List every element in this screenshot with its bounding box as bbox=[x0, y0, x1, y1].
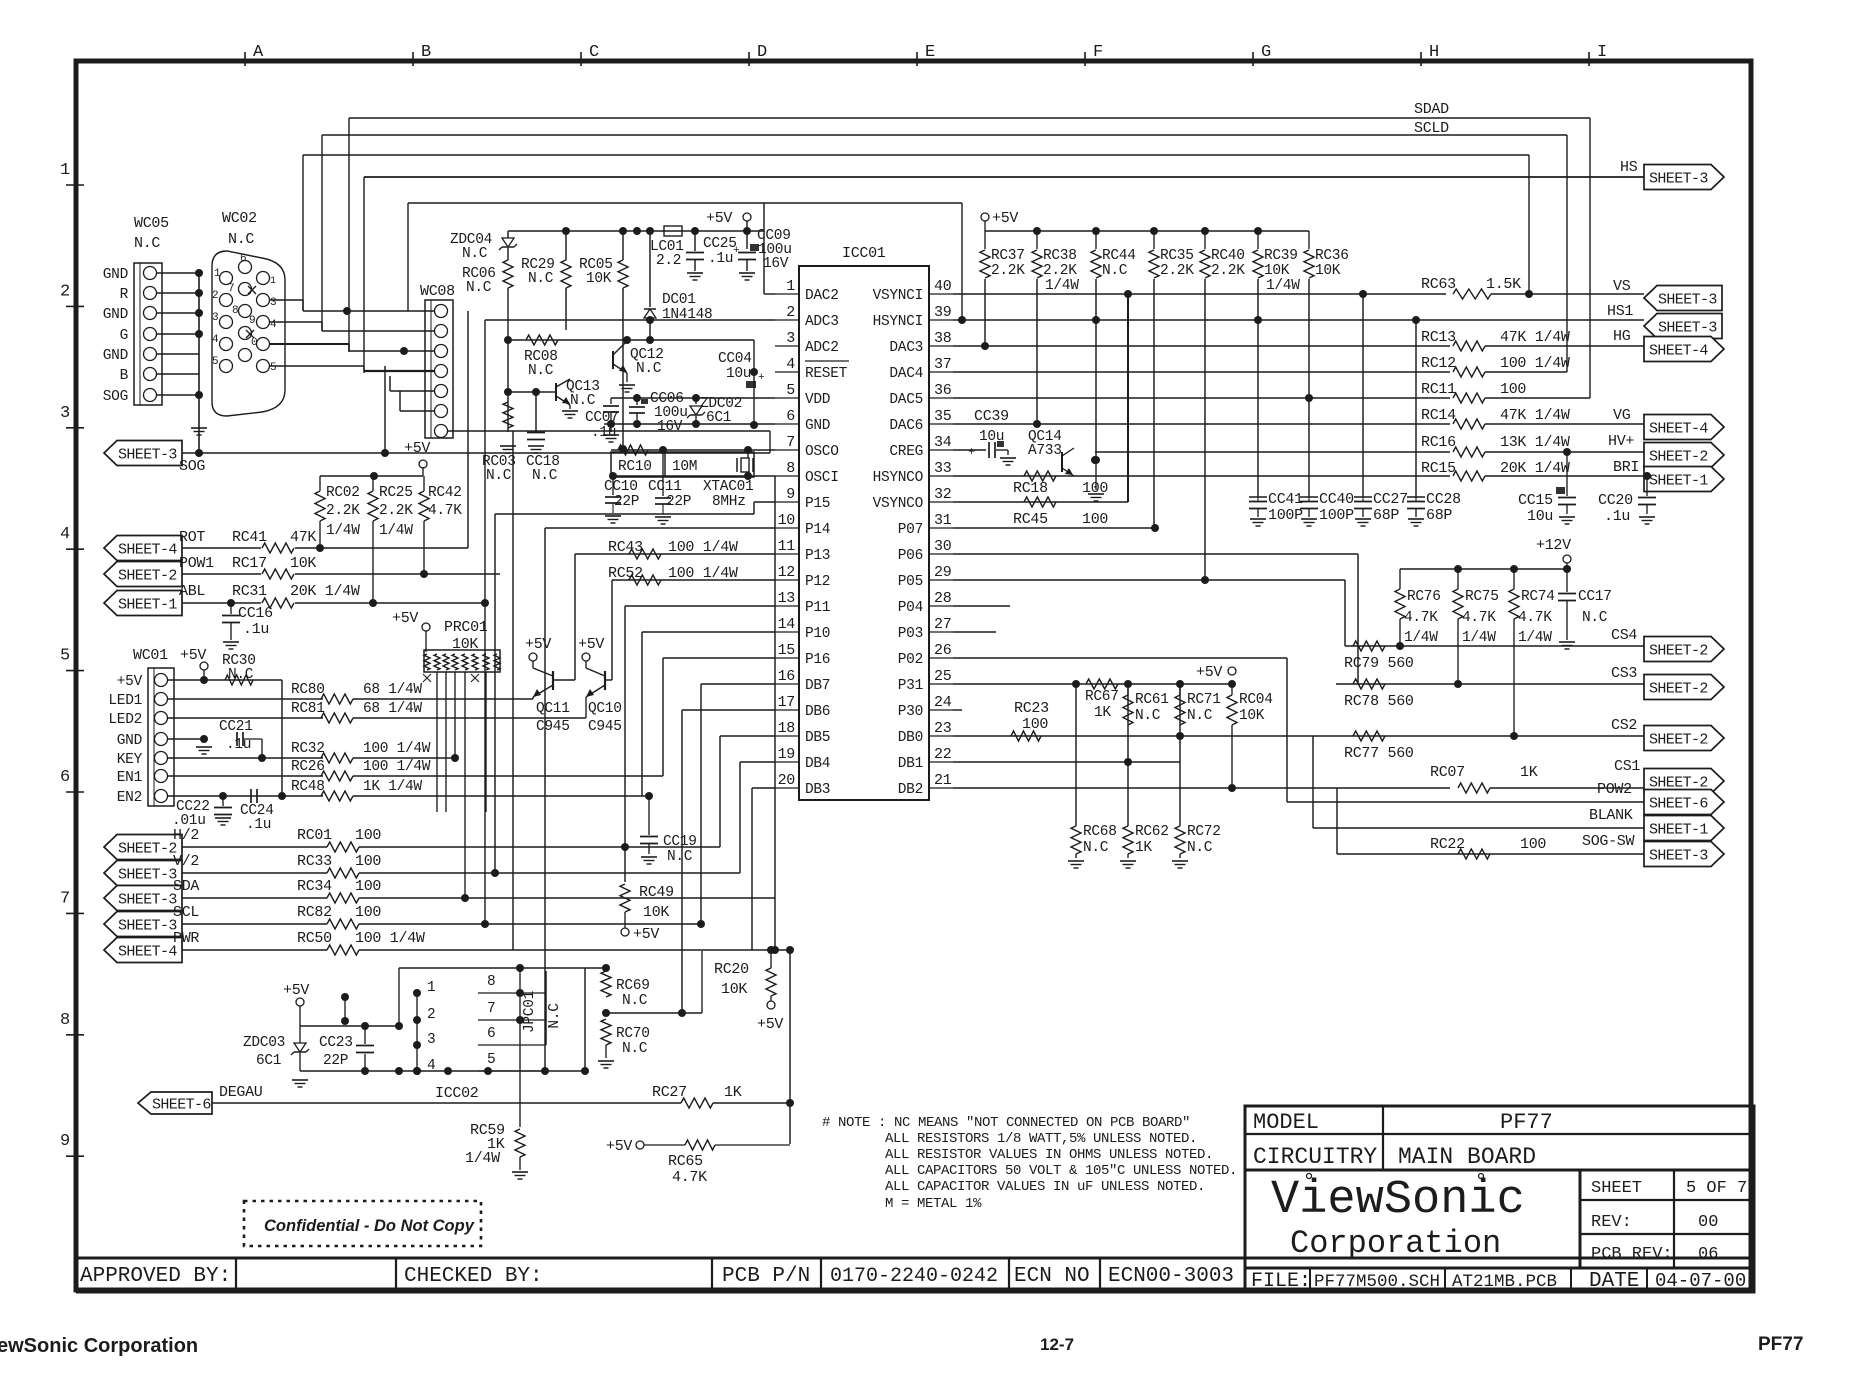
svg-text:4.7K: 4.7K bbox=[1518, 610, 1552, 626]
svg-text:MAIN BOARD: MAIN BOARD bbox=[1398, 1144, 1536, 1170]
svg-text:SHEET-3: SHEET-3 bbox=[118, 918, 177, 935]
svg-text:RC69: RC69 bbox=[616, 978, 650, 994]
svg-text:R: R bbox=[120, 287, 129, 303]
svg-text:16V: 16V bbox=[657, 419, 683, 435]
svg-text:G: G bbox=[1261, 43, 1271, 62]
svg-text:4: 4 bbox=[212, 334, 219, 346]
svg-text:N.C: N.C bbox=[547, 1003, 563, 1029]
svg-text:SHEET-3: SHEET-3 bbox=[1658, 292, 1717, 309]
svg-text:HSYNCI: HSYNCI bbox=[873, 314, 923, 330]
svg-text:38: 38 bbox=[934, 330, 952, 347]
svg-text:RC25: RC25 bbox=[379, 485, 413, 501]
svg-text:SHEET-1: SHEET-1 bbox=[118, 597, 177, 614]
svg-text:RC11: RC11 bbox=[1421, 381, 1456, 398]
svg-text:+5V: +5V bbox=[117, 674, 143, 690]
svg-text:5: 5 bbox=[60, 647, 70, 666]
svg-text:H/2: H/2 bbox=[173, 827, 199, 844]
svg-text:10u: 10u bbox=[1527, 508, 1553, 525]
svg-text:10M: 10M bbox=[672, 459, 697, 475]
svg-text:H: H bbox=[1429, 43, 1439, 62]
svg-text:RC48: RC48 bbox=[291, 779, 325, 795]
svg-text:1: 1 bbox=[786, 278, 795, 295]
svg-text:20K 1/4W: 20K 1/4W bbox=[1500, 460, 1570, 477]
svg-text:RC41: RC41 bbox=[232, 529, 267, 546]
svg-text:AT21MB.PCB: AT21MB.PCB bbox=[1452, 1272, 1557, 1292]
svg-text:RC67: RC67 bbox=[1085, 689, 1119, 705]
svg-text:P04: P04 bbox=[898, 600, 923, 616]
svg-text:GND: GND bbox=[103, 348, 128, 364]
svg-text:100: 100 bbox=[1082, 480, 1108, 497]
svg-text:11: 11 bbox=[778, 538, 796, 555]
svg-text:06: 06 bbox=[1698, 1245, 1718, 1264]
svg-text:3: 3 bbox=[427, 1032, 435, 1048]
svg-text:N.C: N.C bbox=[636, 361, 662, 377]
svg-text:31: 31 bbox=[934, 512, 952, 529]
svg-text:N.C: N.C bbox=[1083, 840, 1109, 856]
svg-text:CC19: CC19 bbox=[663, 834, 697, 850]
svg-text:13: 13 bbox=[778, 590, 796, 607]
svg-text:CS1: CS1 bbox=[1614, 758, 1640, 775]
svg-text:SOG: SOG bbox=[103, 389, 128, 405]
svg-text:HS: HS bbox=[1620, 159, 1638, 176]
svg-text:+5V: +5V bbox=[706, 210, 732, 227]
svg-text:RC13: RC13 bbox=[1421, 329, 1456, 346]
svg-text:22: 22 bbox=[934, 746, 951, 763]
svg-text:DAC6: DAC6 bbox=[889, 418, 923, 434]
svg-text:PRC01: PRC01 bbox=[444, 619, 488, 636]
svg-text:RC27: RC27 bbox=[652, 1084, 687, 1101]
svg-text:3: 3 bbox=[270, 297, 276, 309]
svg-text:ZDC03: ZDC03 bbox=[243, 1035, 285, 1051]
svg-text:SHEET-3: SHEET-3 bbox=[1649, 171, 1708, 188]
svg-text:B: B bbox=[120, 368, 129, 384]
svg-text:RC72: RC72 bbox=[1187, 824, 1221, 840]
svg-text:8MHz: 8MHz bbox=[712, 494, 746, 510]
svg-text:100: 100 bbox=[1082, 511, 1108, 528]
svg-text:CS2: CS2 bbox=[1611, 717, 1637, 734]
svg-text:40: 40 bbox=[934, 278, 952, 295]
svg-text:KEY: KEY bbox=[117, 752, 143, 768]
svg-text:V/2: V/2 bbox=[173, 853, 199, 870]
svg-text:+: + bbox=[758, 372, 764, 384]
svg-text:5: 5 bbox=[212, 356, 218, 368]
svg-text:+5V: +5V bbox=[404, 440, 430, 457]
svg-text:APPROVED BY:: APPROVED BY: bbox=[80, 1265, 231, 1288]
svg-text:1K: 1K bbox=[1094, 705, 1111, 721]
svg-text:Corporation: Corporation bbox=[1290, 1225, 1501, 1262]
svg-text:6: 6 bbox=[240, 253, 246, 265]
svg-text:HS1: HS1 bbox=[1607, 303, 1633, 320]
svg-text:1K: 1K bbox=[1135, 840, 1152, 856]
svg-text:DAC2: DAC2 bbox=[805, 288, 839, 304]
svg-text:C945: C945 bbox=[536, 719, 570, 735]
svg-text:SHEET-2: SHEET-2 bbox=[1649, 643, 1708, 660]
svg-text:GND: GND bbox=[117, 733, 142, 749]
svg-text:CC15: CC15 bbox=[1518, 492, 1553, 509]
svg-text:N.C: N.C bbox=[228, 231, 254, 248]
svg-text:ALL CAPACITORS 50 VOLT & 105"C: ALL CAPACITORS 50 VOLT & 105"C UNLESS NO… bbox=[885, 1163, 1237, 1179]
svg-text:E: E bbox=[925, 43, 935, 62]
svg-text:10K: 10K bbox=[721, 981, 747, 998]
svg-text:CC17: CC17 bbox=[1578, 589, 1612, 605]
svg-text:CC20: CC20 bbox=[1598, 492, 1633, 509]
svg-text:P05: P05 bbox=[898, 574, 923, 590]
svg-text:P15: P15 bbox=[805, 496, 830, 512]
svg-text:RC70: RC70 bbox=[616, 1026, 650, 1042]
svg-text:RC35: RC35 bbox=[1160, 248, 1194, 264]
svg-text:2: 2 bbox=[786, 304, 795, 321]
svg-text:RC74: RC74 bbox=[1521, 589, 1555, 605]
svg-text:28: 28 bbox=[934, 590, 952, 607]
svg-text:6: 6 bbox=[786, 408, 795, 425]
svg-text:+5V: +5V bbox=[392, 610, 418, 627]
svg-text:LED2: LED2 bbox=[108, 712, 142, 728]
svg-text:N.C: N.C bbox=[1102, 263, 1128, 279]
svg-text:2: 2 bbox=[427, 1007, 435, 1023]
svg-text:DAC4: DAC4 bbox=[889, 366, 923, 382]
svg-text:N.C: N.C bbox=[667, 849, 693, 865]
svg-text:1/4W: 1/4W bbox=[1462, 630, 1496, 646]
svg-text:2.2K: 2.2K bbox=[1043, 263, 1077, 279]
svg-text:+5V: +5V bbox=[606, 1138, 632, 1155]
svg-text:7: 7 bbox=[487, 1001, 495, 1017]
svg-text:5: 5 bbox=[270, 362, 276, 374]
svg-text:SHEET-4: SHEET-4 bbox=[118, 542, 177, 559]
svg-text:10K: 10K bbox=[1239, 708, 1265, 724]
svg-text:PCB REV:: PCB REV: bbox=[1591, 1245, 1673, 1264]
svg-text:30: 30 bbox=[934, 538, 952, 555]
svg-text:PWR: PWR bbox=[173, 930, 199, 947]
svg-text:SHEET-4: SHEET-4 bbox=[1649, 343, 1708, 360]
svg-text:POW2: POW2 bbox=[1597, 781, 1632, 798]
svg-text:RC44: RC44 bbox=[1102, 248, 1136, 264]
svg-text:100 1/4W: 100 1/4W bbox=[363, 741, 431, 757]
svg-text:C945: C945 bbox=[588, 719, 622, 735]
svg-text:04-07-00: 04-07-00 bbox=[1655, 1270, 1746, 1292]
svg-text:10K: 10K bbox=[586, 271, 612, 287]
svg-text:14: 14 bbox=[778, 616, 796, 633]
svg-text:3: 3 bbox=[60, 404, 70, 423]
svg-text:100 1/4W: 100 1/4W bbox=[355, 930, 425, 947]
svg-text:ADC2: ADC2 bbox=[805, 340, 839, 356]
svg-text:2.2K: 2.2K bbox=[379, 503, 413, 519]
svg-text:CC10: CC10 bbox=[604, 479, 638, 495]
svg-text:CC23: CC23 bbox=[319, 1035, 353, 1051]
svg-text:CC21: CC21 bbox=[219, 719, 253, 735]
svg-text:DATE: DATE bbox=[1589, 1270, 1639, 1293]
svg-text:2.2K: 2.2K bbox=[1160, 263, 1194, 279]
svg-text:CC16: CC16 bbox=[238, 605, 273, 622]
svg-text:VG: VG bbox=[1613, 407, 1631, 424]
svg-text:RC79 560: RC79 560 bbox=[1344, 655, 1414, 672]
svg-text:+12V: +12V bbox=[1536, 537, 1571, 554]
svg-text:5: 5 bbox=[487, 1052, 495, 1068]
svg-text:RC50: RC50 bbox=[297, 930, 332, 947]
svg-text:RC62: RC62 bbox=[1135, 824, 1169, 840]
svg-text:1: 1 bbox=[270, 276, 276, 287]
svg-text:N.C: N.C bbox=[622, 1041, 648, 1057]
svg-text:27: 27 bbox=[934, 616, 951, 633]
svg-text:RC76: RC76 bbox=[1407, 589, 1441, 605]
svg-text:RC10: RC10 bbox=[618, 459, 652, 475]
svg-text:SHEET-2: SHEET-2 bbox=[1649, 681, 1708, 698]
svg-text:SDA: SDA bbox=[173, 878, 199, 895]
svg-text:19: 19 bbox=[778, 746, 795, 763]
svg-text:SHEET-2: SHEET-2 bbox=[118, 841, 177, 858]
svg-text:I: I bbox=[1597, 43, 1607, 62]
svg-text:ADC3: ADC3 bbox=[805, 314, 839, 330]
svg-text:1/4W: 1/4W bbox=[326, 523, 360, 539]
svg-text:N.C: N.C bbox=[1582, 610, 1608, 626]
svg-text:RC12: RC12 bbox=[1421, 355, 1456, 372]
svg-text:RESET: RESET bbox=[805, 366, 848, 382]
svg-text:8: 8 bbox=[487, 974, 495, 990]
svg-text:+: + bbox=[733, 245, 739, 257]
svg-text:CC11: CC11 bbox=[648, 479, 682, 495]
svg-text:1/4W: 1/4W bbox=[1404, 630, 1438, 646]
svg-text:RC39: RC39 bbox=[1264, 248, 1298, 264]
svg-text:8: 8 bbox=[60, 1011, 70, 1030]
svg-text:FILE:: FILE: bbox=[1251, 1270, 1311, 1293]
svg-text:6C1: 6C1 bbox=[256, 1053, 281, 1069]
svg-text:N.C: N.C bbox=[622, 993, 648, 1009]
svg-text:SHEET-3: SHEET-3 bbox=[118, 447, 177, 464]
svg-text:N.C: N.C bbox=[134, 235, 160, 252]
svg-text:SHEET-6: SHEET-6 bbox=[152, 1097, 211, 1114]
svg-text:P02: P02 bbox=[898, 652, 923, 668]
svg-text:N.C: N.C bbox=[532, 468, 558, 484]
svg-text:VSYNCO: VSYNCO bbox=[873, 496, 923, 512]
svg-text:N.C: N.C bbox=[1187, 840, 1213, 856]
svg-text:68P: 68P bbox=[1426, 507, 1452, 524]
svg-text:+5V: +5V bbox=[578, 636, 604, 653]
svg-text:100P: 100P bbox=[1268, 507, 1303, 524]
svg-text:6C1: 6C1 bbox=[706, 410, 731, 426]
svg-text:N.C: N.C bbox=[466, 280, 492, 296]
svg-text:RC37: RC37 bbox=[991, 248, 1025, 264]
svg-text:3: 3 bbox=[786, 330, 795, 347]
svg-text:OSCO: OSCO bbox=[805, 444, 839, 460]
svg-text:1/4W: 1/4W bbox=[1045, 278, 1079, 294]
svg-text:HSYNCO: HSYNCO bbox=[873, 470, 923, 486]
svg-text:P10: P10 bbox=[805, 626, 830, 642]
svg-text:ICC01: ICC01 bbox=[842, 245, 886, 262]
svg-text:.1u: .1u bbox=[708, 251, 733, 267]
svg-text:SOG: SOG bbox=[179, 458, 205, 475]
svg-text:10u: 10u bbox=[979, 429, 1004, 445]
svg-text:ICC02: ICC02 bbox=[435, 1085, 479, 1102]
svg-text:100: 100 bbox=[355, 904, 381, 921]
svg-text:SHEET-3: SHEET-3 bbox=[118, 867, 177, 884]
svg-text:ViewSonic: ViewSonic bbox=[1271, 1174, 1525, 1227]
svg-text:RC38: RC38 bbox=[1043, 248, 1077, 264]
svg-text:RC15: RC15 bbox=[1421, 460, 1456, 477]
svg-text:1: 1 bbox=[214, 268, 221, 280]
svg-text:QC11: QC11 bbox=[536, 701, 570, 717]
svg-text:SHEET-2: SHEET-2 bbox=[1649, 732, 1708, 749]
svg-text:8: 8 bbox=[786, 460, 795, 477]
svg-text:68 1/4W: 68 1/4W bbox=[363, 701, 422, 717]
svg-text:CHECKED BY:: CHECKED BY: bbox=[404, 1265, 543, 1288]
svg-text:4: 4 bbox=[60, 525, 70, 544]
svg-text:A733: A733 bbox=[1028, 443, 1062, 459]
svg-text:POW1: POW1 bbox=[179, 555, 214, 572]
svg-text:10K: 10K bbox=[643, 904, 669, 921]
svg-text:PF77: PF77 bbox=[1500, 1110, 1553, 1135]
svg-text:DB6: DB6 bbox=[805, 704, 830, 720]
svg-text:WC08: WC08 bbox=[420, 283, 455, 300]
svg-text:10K: 10K bbox=[290, 555, 316, 572]
svg-text:CC39: CC39 bbox=[974, 408, 1009, 425]
svg-text:RC75: RC75 bbox=[1465, 589, 1499, 605]
svg-text:CC40: CC40 bbox=[1319, 491, 1354, 508]
svg-text:N.C: N.C bbox=[462, 246, 488, 262]
svg-text:GND: GND bbox=[103, 307, 128, 323]
svg-text:SHEET-1: SHEET-1 bbox=[1649, 822, 1708, 839]
svg-text:.1u: .1u bbox=[243, 621, 269, 638]
svg-text:SHEET-3: SHEET-3 bbox=[1649, 848, 1708, 865]
svg-text:RC26: RC26 bbox=[291, 759, 325, 775]
svg-text:RC36: RC36 bbox=[1315, 248, 1349, 264]
svg-text:VDD: VDD bbox=[805, 392, 830, 408]
svg-text:2.2K: 2.2K bbox=[991, 263, 1025, 279]
svg-text:DB2: DB2 bbox=[898, 782, 923, 798]
svg-text:DAC3: DAC3 bbox=[889, 340, 923, 356]
svg-text:ewSonic Corporation: ewSonic Corporation bbox=[0, 1335, 198, 1357]
svg-text:1K: 1K bbox=[1520, 764, 1538, 781]
svg-text:RC23: RC23 bbox=[1014, 700, 1049, 717]
svg-text:RC68: RC68 bbox=[1083, 824, 1117, 840]
svg-text:CC28: CC28 bbox=[1426, 491, 1461, 508]
svg-text:RC04: RC04 bbox=[1239, 692, 1273, 708]
svg-text:100 1/4W: 100 1/4W bbox=[363, 759, 431, 775]
svg-text:+5V: +5V bbox=[757, 1016, 783, 1033]
svg-text:SHEET-2: SHEET-2 bbox=[118, 568, 177, 585]
svg-text:RC20: RC20 bbox=[714, 961, 749, 978]
svg-text:RC07: RC07 bbox=[1430, 764, 1465, 781]
svg-text:CC25: CC25 bbox=[703, 236, 737, 252]
svg-text:Confidential - Do Not Copy: Confidential - Do Not Copy bbox=[264, 1217, 475, 1235]
svg-text:RC82: RC82 bbox=[297, 904, 332, 921]
svg-text:ABL: ABL bbox=[179, 583, 205, 600]
svg-text:4.7K: 4.7K bbox=[428, 503, 462, 519]
svg-text:RC40: RC40 bbox=[1211, 248, 1245, 264]
svg-text:P13: P13 bbox=[805, 548, 830, 564]
svg-text:32: 32 bbox=[934, 486, 951, 503]
svg-text:CREG: CREG bbox=[889, 444, 923, 460]
svg-text:1: 1 bbox=[60, 161, 70, 180]
svg-text:RC61: RC61 bbox=[1135, 692, 1169, 708]
svg-text:21: 21 bbox=[934, 772, 952, 789]
svg-text:+5V: +5V bbox=[283, 982, 309, 999]
svg-text:22P: 22P bbox=[323, 1053, 348, 1069]
svg-text:OSCI: OSCI bbox=[805, 470, 839, 486]
svg-text:SOG-SW: SOG-SW bbox=[1582, 833, 1635, 850]
svg-text:18: 18 bbox=[778, 720, 796, 737]
svg-text:EN2: EN2 bbox=[117, 790, 142, 806]
svg-text:JPC01: JPC01 bbox=[522, 991, 538, 1033]
svg-text:1/4W: 1/4W bbox=[1266, 278, 1300, 294]
svg-text:P06: P06 bbox=[898, 548, 923, 564]
svg-text:CC04: CC04 bbox=[718, 351, 752, 367]
svg-text:26: 26 bbox=[934, 642, 952, 659]
svg-text:P07: P07 bbox=[898, 522, 923, 538]
svg-text:25: 25 bbox=[934, 668, 952, 685]
svg-text:RC71: RC71 bbox=[1187, 692, 1221, 708]
svg-text:RC16: RC16 bbox=[1421, 434, 1456, 451]
svg-text:16: 16 bbox=[778, 668, 796, 685]
svg-text:GND: GND bbox=[805, 418, 830, 434]
svg-text:17: 17 bbox=[778, 694, 795, 711]
svg-text:HV+: HV+ bbox=[1608, 433, 1634, 450]
svg-text:DC01: DC01 bbox=[662, 292, 696, 308]
svg-text:23: 23 bbox=[934, 720, 952, 737]
svg-text:ROT: ROT bbox=[179, 529, 205, 546]
svg-text:6: 6 bbox=[60, 768, 70, 787]
svg-text:RC42: RC42 bbox=[428, 485, 462, 501]
svg-text:7: 7 bbox=[786, 434, 795, 451]
svg-text:RC33: RC33 bbox=[297, 853, 332, 870]
svg-text:PF77: PF77 bbox=[1758, 1334, 1803, 1355]
svg-text:SHEET-2: SHEET-2 bbox=[1649, 449, 1708, 466]
svg-text:N.C: N.C bbox=[1187, 708, 1213, 724]
svg-text:16V: 16V bbox=[763, 256, 789, 272]
svg-text:XTAC01: XTAC01 bbox=[703, 479, 753, 495]
svg-text:G: G bbox=[120, 328, 128, 344]
svg-text:100P: 100P bbox=[1319, 507, 1354, 524]
svg-text:37: 37 bbox=[934, 356, 951, 373]
svg-text:1/4W: 1/4W bbox=[379, 523, 413, 539]
svg-text:4: 4 bbox=[786, 356, 795, 373]
svg-text:P30: P30 bbox=[898, 704, 923, 720]
svg-text:ALL CAPACITOR VALUES IN uF UNL: ALL CAPACITOR VALUES IN uF UNLESS NOTED. bbox=[885, 1179, 1205, 1195]
svg-text:D: D bbox=[757, 43, 767, 62]
svg-text:+5V: +5V bbox=[180, 647, 206, 664]
svg-text:68P: 68P bbox=[1373, 507, 1399, 524]
svg-text:N.C: N.C bbox=[486, 468, 512, 484]
svg-text:BRI: BRI bbox=[1613, 459, 1639, 476]
svg-text:SHEET: SHEET bbox=[1591, 1179, 1642, 1198]
svg-text:P03: P03 bbox=[898, 626, 923, 642]
svg-text:CC41: CC41 bbox=[1268, 491, 1303, 508]
svg-text:35: 35 bbox=[934, 408, 952, 425]
svg-text:VSYNCI: VSYNCI bbox=[873, 288, 923, 304]
svg-text:29: 29 bbox=[934, 564, 951, 581]
svg-text:39: 39 bbox=[934, 304, 951, 321]
svg-text:13K 1/4W: 13K 1/4W bbox=[1500, 434, 1570, 451]
svg-text:4.7K: 4.7K bbox=[1404, 610, 1438, 626]
svg-text:34: 34 bbox=[934, 434, 952, 451]
svg-text:0170-2240-0242: 0170-2240-0242 bbox=[830, 1265, 998, 1288]
svg-text:QC10: QC10 bbox=[588, 701, 622, 717]
svg-text:12: 12 bbox=[778, 564, 795, 581]
svg-text:1/4W: 1/4W bbox=[1518, 630, 1552, 646]
svg-text:2: 2 bbox=[60, 282, 70, 301]
svg-text:100: 100 bbox=[355, 827, 381, 844]
svg-text:P12: P12 bbox=[805, 574, 830, 590]
svg-text:5 OF 7: 5 OF 7 bbox=[1686, 1179, 1747, 1198]
svg-text:12-7: 12-7 bbox=[1040, 1335, 1074, 1354]
svg-text:RC77 560: RC77 560 bbox=[1344, 745, 1414, 762]
svg-text:+5V: +5V bbox=[992, 210, 1018, 227]
svg-text:1/4W: 1/4W bbox=[465, 1150, 500, 1167]
svg-text:WC02: WC02 bbox=[222, 210, 257, 227]
svg-text:00: 00 bbox=[1698, 1213, 1718, 1232]
svg-text:DB5: DB5 bbox=[805, 730, 830, 746]
svg-text:CC27: CC27 bbox=[1373, 491, 1408, 508]
svg-text:RC80: RC80 bbox=[291, 682, 325, 698]
svg-text:RC81: RC81 bbox=[291, 701, 325, 717]
